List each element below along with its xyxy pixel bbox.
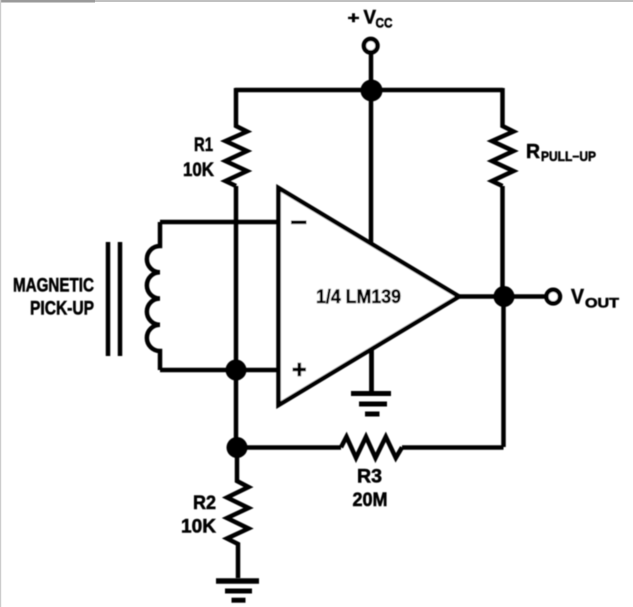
svg-text:R3: R3: [357, 467, 382, 488]
svg-text:+: +: [348, 9, 360, 28]
svg-text:CC: CC: [376, 15, 393, 31]
ground op-amp: [369, 350, 374, 393]
svg-text:PULL−UP: PULL−UP: [541, 149, 596, 164]
resistor R2: [227, 447, 249, 578]
svg-text:OUT: OUT: [585, 296, 620, 311]
label plus input: [293, 363, 307, 376]
wire right branch vertical: [500, 186, 505, 296]
wire top rail: [235, 88, 503, 93]
inductor coil magnetic pick-up: [147, 222, 160, 370]
node plus-input junction: [226, 360, 247, 381]
resistor R1: [226, 88, 248, 186]
node Vcc junction: [361, 80, 383, 102]
resistor R3: [341, 437, 402, 458]
svg-text:R1: R1: [194, 135, 213, 156]
svg-text:10K: 10K: [181, 517, 216, 538]
wire Vcc vertical: [369, 53, 374, 244]
wire output: [459, 294, 546, 299]
resistor Rpull-up: [492, 88, 514, 186]
svg-text:PICK-UP: PICK-UP: [30, 299, 94, 320]
op-amp U1 1/4 LM139: [279, 188, 460, 405]
svg-text:20M: 20M: [353, 490, 388, 511]
magnetic pick-up core bars: [108, 242, 120, 356]
svg-text:V: V: [364, 8, 377, 29]
ground bottom: [216, 578, 259, 584]
terminal +Vcc: [364, 39, 378, 53]
wire left branch vertical: [234, 186, 239, 447]
svg-text:1/4 LM139: 1/4 LM139: [316, 287, 401, 308]
scan edge left: [0, 0, 1, 607]
wire non-inverting input: [160, 368, 280, 373]
svg-text:R: R: [526, 141, 541, 163]
wire inverting input: [160, 220, 280, 225]
wire feedback left segment: [237, 445, 341, 450]
svg-text:10K: 10K: [183, 160, 214, 181]
node bottom-left junction: [227, 437, 248, 458]
terminal Vout: [546, 290, 560, 304]
scan edge top: [0, 0, 633, 2]
label minus input: [291, 221, 307, 225]
svg-text:V: V: [571, 286, 584, 309]
wire feedback right segment: [402, 445, 504, 450]
svg-text:MAGNETIC: MAGNETIC: [13, 276, 94, 297]
svg-text:R2: R2: [193, 493, 216, 514]
node output junction: [494, 286, 515, 307]
